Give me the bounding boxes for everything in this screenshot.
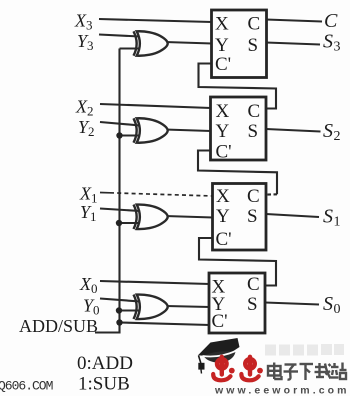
xor gate G2 [134,118,168,143]
svg-text:X3: X3 [74,11,93,33]
full adder U1 [213,184,267,251]
logo red character chong 2 [241,357,263,381]
svg-text:C: C [248,14,261,35]
wire S3 output [266,43,320,45]
svg-text:www.eeworm.com: www.eeworm.com [214,385,350,396]
svg-text:C: C [247,274,260,295]
svg-text:C: C [324,10,338,32]
svg-text:X2: X2 [75,97,94,119]
junction dot U0 C' branch [116,319,122,325]
wire G1 output to U1 pin Y [165,216,213,218]
wire carry U2.C to U3.C' [199,64,277,109]
xor gate G3 [134,31,168,56]
U1 pin labels [216,186,260,250]
svg-text:X: X [216,186,230,207]
svg-text:Y: Y [216,121,230,142]
svg-text:Y3: Y3 [77,31,94,53]
svg-text:S0: S0 [323,293,341,317]
wire G2 output to U2 pin Y [165,130,211,132]
svg-text:C': C' [216,229,232,250]
U2 pin labels [216,101,261,163]
wire S0 output [265,303,319,305]
svg-text:Y: Y [215,35,229,56]
wire S1 output [266,214,319,217]
wire Y0 to XOR G0 [100,299,140,302]
wire X3 input [99,19,212,22]
junction dot G2 input [116,132,122,138]
wire control to U0 pin C' [120,323,211,326]
wire control to G2 lower input [120,134,141,136]
svg-text:S2: S2 [323,120,341,144]
svg-text:X: X [216,101,230,122]
svg-text:X0: X0 [79,274,98,296]
svg-text:Y: Y [216,206,230,227]
svg-text:S: S [248,121,259,142]
wire Y3 to XOR G3 [99,35,140,37]
junction dot G1 input [116,220,122,226]
svg-text:S: S [247,206,258,227]
full adder U0 [209,273,265,333]
svg-text:X: X [215,14,229,35]
svg-text:C': C' [215,54,231,75]
wire control to G1 lower input [119,222,140,224]
svg-text:S: S [247,294,258,315]
svg-text:C: C [247,186,260,207]
logo ghost text [265,344,344,356]
svg-text:S: S [248,35,259,56]
logo graduation cap [198,338,240,374]
full adder U2 [211,97,267,160]
wire G0 output to U0 pin Y [166,306,210,307]
svg-text:C: C [248,101,261,122]
svg-text:0:ADD: 0:ADD [77,353,133,374]
wire Y2 to XOR G2 [100,122,140,126]
wire carry U0.C to U1.C' [199,238,276,286]
logo text zi (子) [284,365,299,380]
svg-text:S3: S3 [323,31,341,55]
svg-text:Y2: Y2 [78,117,95,139]
input label X3 [74,10,341,318]
U0 pin labels [212,274,260,332]
wire control to G0 lower input [119,309,140,311]
wire X0 input [100,281,210,284]
wire C output [266,20,322,22]
wire X1 input (dashed) [100,192,110,194]
logo text zai (载) [315,363,331,379]
full adder U3 [212,10,267,78]
wire G3 output to U3 pin Y [165,42,212,44]
wire S2 output [266,129,321,132]
logo red character chong 1 [213,357,235,381]
svg-text:Q606.COM: Q606.COM [0,379,53,394]
U3 pin labels [215,14,260,76]
wire ADD/SUB control vertical [95,49,120,333]
svg-text:S1: S1 [323,206,341,230]
svg-text:1:SUB: 1:SUB [78,374,130,395]
logo text dian (电) [268,363,282,380]
logo text zhan (站) [331,363,347,380]
svg-text:ADD/SUB: ADD/SUB [19,316,98,336]
wire Y1 to XOR G1 [100,209,140,212]
wire X2 input [100,104,211,108]
xor gate G0 [134,295,168,320]
junction dot G0 input [116,307,122,313]
svg-text:C': C' [216,142,232,163]
svg-text:C': C' [212,311,228,332]
xor gate G1 [134,205,168,230]
wire carry U1.C to U2.C' [198,151,277,195]
svg-text:Y0: Y0 [83,296,100,318]
wire control to G3 lower input [120,47,141,49]
logo text xia (下) [300,364,314,380]
